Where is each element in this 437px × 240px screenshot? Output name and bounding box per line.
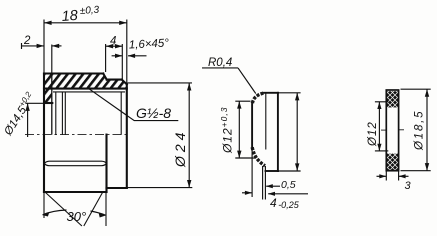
dimension dia 12 +0,3 (235, 101, 255, 158)
svg-text:G½-8: G½-8 (136, 105, 171, 121)
ferrule flared lip (hatched arc) (252, 93, 264, 103)
bore step lines (56, 92, 121, 135)
svg-text:3: 3 (405, 180, 412, 192)
svg-text:1,6×45°: 1,6×45° (129, 37, 170, 51)
ferrule outline (252, 93, 278, 171)
svg-text:0,5: 0,5 (281, 179, 296, 191)
washer top section (cross-hatched) (387, 91, 399, 107)
dimension dia 18,5 (washer OD) (401, 89, 431, 171)
nut outline (thick) (44, 74, 127, 193)
svg-text:4-0,25: 4-0,25 (270, 196, 300, 210)
svg-text:30°: 30° (67, 209, 87, 224)
svg-text:Ø18,5: Ø18,5 (414, 110, 426, 151)
svg-text:Ø12: Ø12 (367, 121, 379, 147)
thread label G1/2-8 leader (89, 89, 178, 121)
dimension dia 24 (128, 83, 193, 188)
svg-text:±0,3: ±0,3 (79, 5, 100, 17)
ferrule thin end wall 0,5 (252, 147, 265, 200)
right height dimension of ferrule (278, 93, 301, 171)
dimension 1,6x45 chamfer (112, 55, 147, 57)
hex flat arcs (44, 161, 106, 166)
washer centerline dashes (381, 129, 404, 131)
dimension dia 12 (washer bore) (375, 102, 388, 151)
dimension 18 +-0.3 (44, 20, 127, 85)
washer outline (386, 90, 398, 171)
svg-text:Ø12+0,3: Ø12+0,3 (219, 107, 235, 154)
30 deg chamfer generator lines (44, 192, 106, 226)
svg-text:Ø24: Ø24 (172, 129, 188, 168)
centerline (axis) of nut (25, 134, 130, 136)
dimension 0,5 wall (266, 185, 280, 187)
dimension 3 (washer thickness) (377, 171, 409, 181)
inner wall face line (51, 74, 53, 135)
dimension 2 (wall) (22, 43, 62, 74)
svg-text:R0,4: R0,4 (208, 57, 232, 69)
svg-text:2: 2 (23, 35, 31, 47)
svg-text:Ø14,5+0,2: Ø14,5+0,2 (0, 90, 38, 139)
dimension 4 -0,25 length (242, 193, 308, 194)
ferrule inner edge (265, 93, 267, 149)
hatched wall section of nut (44, 74, 127, 104)
dimension dia 14,5 +0,2 (25, 103, 44, 137)
dimension 4 (neck) (106, 44, 123, 80)
ferrule lower wall (hatched arc) (252, 147, 265, 166)
30 deg angular dimension arc and arrows (43, 210, 106, 215)
R0,4 leader (202, 68, 256, 94)
washer bottom section (cross-hatched) (387, 154, 399, 171)
thread minor line G1/2 (53, 91, 125, 93)
svg-text:4: 4 (110, 36, 116, 48)
svg-text:18: 18 (61, 8, 78, 25)
